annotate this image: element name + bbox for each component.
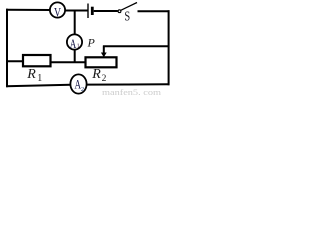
battery long plate [87,4,89,19]
svg-text:2: 2 [81,86,84,93]
wire: slider arm vertical drop [103,46,105,54]
wire: battery to switch [94,10,118,12]
svg-text:R: R [91,67,101,82]
wire: slider arm horizontal to right vertical [103,45,170,47]
ammeter A2 ellipse [70,74,86,93]
switch S contact circle [118,10,121,13]
slider arrowhead onto R2 [101,53,107,58]
svg-text:R: R [26,67,36,82]
wire: top left horizontal from corner to voltmeter [6,9,51,11]
wire: branch from top wire down to ammeter A1 [74,10,76,35]
switch S blade [121,3,137,11]
wire: ammeter A1 down to middle wire [74,49,76,62]
svg-text:1: 1 [77,44,80,50]
svg-text:A: A [70,37,77,51]
svg-text:V: V [54,5,61,20]
svg-text:S: S [124,9,130,24]
svg-text:P: P [87,36,96,50]
svg-text:2: 2 [102,74,107,84]
wire: right vertical [168,10,170,85]
wire: bottom left horizontal to ammeter A2 [6,85,71,86]
resistor R1 box [23,55,51,66]
rheostat R2 box [86,57,117,67]
wire: middle horizontal from left vertical to resistor R1 [6,60,23,62]
wire: top middle from voltmeter to battery [65,10,88,12]
voltmeter U1 circle [50,2,65,17]
background [0,0,171,96]
ammeter A1 circle [67,34,82,49]
wire: left vertical [6,9,8,88]
svg-text:manfen5. com: manfen5. com [102,87,161,96]
battery short plate [91,7,94,15]
wire: middle horizontal from R1 to rheostat R2 [51,61,86,63]
wire: switch to top right corner [138,10,170,12]
svg-text:1: 1 [37,73,42,84]
wire: bottom right horizontal from A2 to right corner [87,83,170,85]
